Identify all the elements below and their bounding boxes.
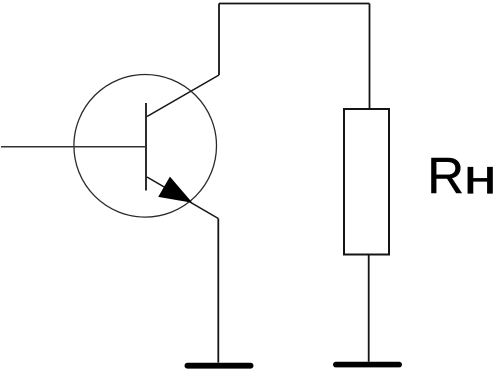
wire emitter diagonal <box>147 177 218 219</box>
resistor Rn body <box>344 109 389 255</box>
wire Rn bottom vertical <box>368 255 370 362</box>
transistor Q1 emitter arrow <box>159 178 191 203</box>
wire emitter vertical <box>217 219 219 363</box>
wire Rn top vertical <box>369 4 371 110</box>
ground (emitter) <box>185 363 254 369</box>
ground (load) <box>333 362 402 368</box>
wire collector vertical <box>218 4 220 76</box>
transistor Q1 circle <box>74 75 217 218</box>
transistor Q1 base bar <box>145 103 147 191</box>
wire base horizontal <box>1 146 146 148</box>
svg-text:н: н <box>464 148 497 204</box>
wire collector diagonal <box>147 75 219 117</box>
wire top horizontal <box>219 3 370 5</box>
svg-text:R: R <box>427 147 464 204</box>
